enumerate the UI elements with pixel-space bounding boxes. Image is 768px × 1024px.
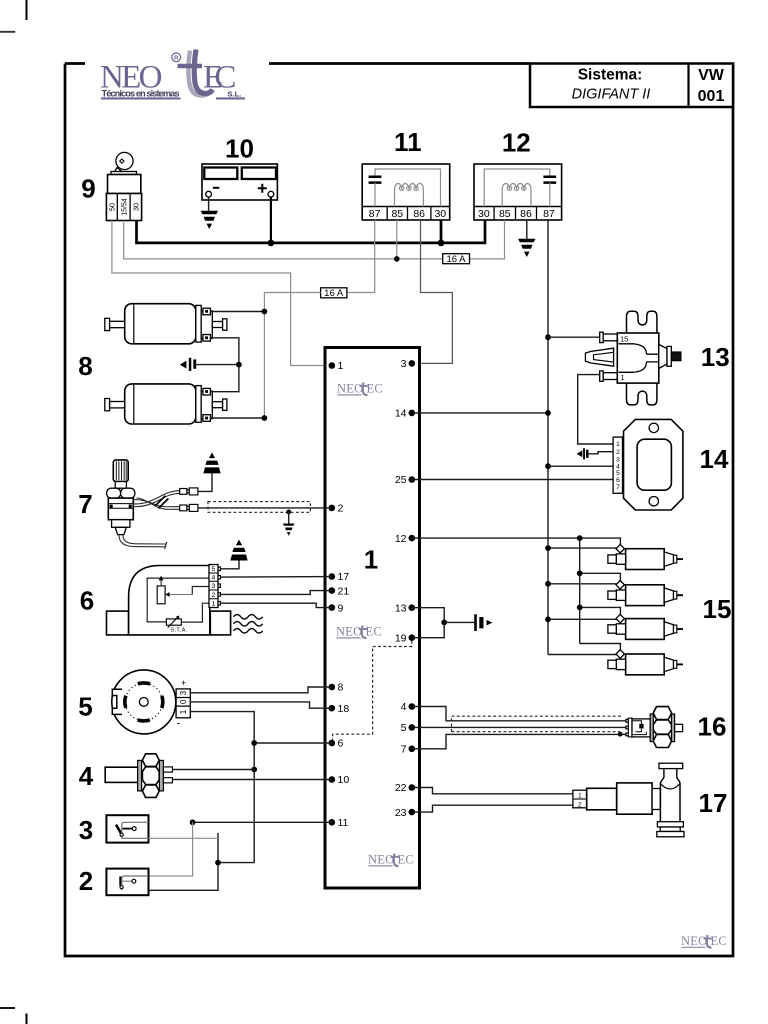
ignition switch 9 key circle xyxy=(116,152,133,169)
junction pump1 feed xyxy=(262,309,268,315)
crop mark bottom horizontal xyxy=(0,1007,15,1009)
wire distributor top to ECU 8 xyxy=(190,687,331,693)
svg-text:50: 50 xyxy=(107,203,116,211)
junction bracket mid xyxy=(441,620,447,626)
ignition switch 9 key beak xyxy=(113,168,122,175)
relay 11 terminal row line xyxy=(362,206,450,208)
wire switch3 lower to chain xyxy=(149,837,219,839)
ignition coil 13 left plug fork xyxy=(585,348,613,366)
temp sensor 17 block B xyxy=(617,783,652,814)
svg-text:25: 25 xyxy=(395,474,407,486)
distributor 5 connector strip xyxy=(176,689,190,718)
ground shield drain (small) xyxy=(283,524,295,536)
ECU internal dashed link pin19 to pin6 xyxy=(333,641,412,743)
svg-text:16: 16 xyxy=(698,711,727,741)
svg-text:5: 5 xyxy=(616,470,620,477)
shield dashed box around pin2 wire xyxy=(208,502,310,513)
svg-text:S.T.A.: S.T.A. xyxy=(170,628,187,634)
svg-text:12: 12 xyxy=(395,533,407,545)
svg-text:3: 3 xyxy=(79,815,93,845)
air flow meter 6 wiper xyxy=(165,592,170,597)
ground AFM (up) xyxy=(230,540,247,561)
ignition module 14 pin digits xyxy=(616,441,620,491)
svg-text:7: 7 xyxy=(616,484,620,491)
knock sensor 4 side bars xyxy=(138,760,142,791)
wire distributor bottom sensor ground chain xyxy=(149,712,255,891)
wire switch3 to switch2 branch xyxy=(149,822,193,876)
relay 11 capacitor lead xyxy=(374,183,376,207)
junction idle valve shield xyxy=(618,732,623,737)
oxygen sensor 7 collar left xyxy=(107,488,121,498)
svg-text:2: 2 xyxy=(338,503,344,515)
svg-text:7: 7 xyxy=(401,744,407,756)
node pin 21 xyxy=(329,587,336,594)
idle valve 16 hex stack xyxy=(653,707,671,720)
relay 12 inner rail xyxy=(484,169,550,207)
svg-text:1: 1 xyxy=(338,360,344,372)
air flow meter 6 pin strip xyxy=(209,565,218,608)
svg-text:86: 86 xyxy=(413,208,425,220)
throttle switch 3 entry bend xyxy=(122,822,149,838)
wire ECU pin4 to valve pin1 xyxy=(412,707,626,721)
air flow meter 6 right foot xyxy=(210,611,230,635)
NEOTEC logo tagline underline xyxy=(101,97,181,99)
oxygen sensor 7 body xyxy=(108,498,133,520)
ignition coil 13 pin15 flange xyxy=(600,332,604,342)
svg-text:8: 8 xyxy=(78,351,92,381)
distributor 5 dotted circle xyxy=(125,683,162,720)
fuel injector 15 no4 xyxy=(608,650,683,675)
crop mark bottom vertical xyxy=(26,1014,28,1024)
svg-text:6: 6 xyxy=(338,738,344,750)
node pin 5 xyxy=(409,724,416,731)
svg-text:0: 0 xyxy=(179,699,188,704)
junction relay11 85 on 15/54 xyxy=(394,256,400,262)
svg-text:16 A: 16 A xyxy=(324,288,344,299)
ignition coil 13 interior curves xyxy=(619,344,659,373)
air flow meter 6 pin digits xyxy=(212,566,216,607)
svg-text:VW: VW xyxy=(698,67,725,84)
temp sensor 17 connector cells xyxy=(573,790,587,808)
ECU control unit 1 box xyxy=(325,348,420,889)
injector supply taps xyxy=(548,548,616,654)
wire fuse2 to fuel pumps xyxy=(264,293,320,419)
wire oxygen signal to ECU pin2 xyxy=(198,507,332,509)
svg-text:87: 87 xyxy=(543,208,555,220)
junction supply to module pin4 xyxy=(545,463,551,469)
svg-text:1: 1 xyxy=(364,545,378,575)
NEOTEC logo S.L. underline xyxy=(216,97,245,99)
air flow meter 6 STA resistor box xyxy=(166,619,181,625)
fuel injector 15 no1 xyxy=(608,544,683,569)
svg-text:11: 11 xyxy=(338,817,349,829)
relay 11 coil loops xyxy=(400,186,419,190)
air flow meter 6 internal loop top xyxy=(147,578,209,622)
wire AFM pin4 to ECU 17 xyxy=(220,576,331,579)
svg-text:15: 15 xyxy=(703,594,732,624)
wire pump1 plus to feed xyxy=(210,311,264,313)
wire chain to ECU pin6 xyxy=(254,742,332,744)
battery 10 case xyxy=(202,164,277,200)
svg-text:1: 1 xyxy=(616,441,620,448)
svg-text:15/54: 15/54 xyxy=(121,198,128,216)
ignition module 14 octagon xyxy=(624,419,683,510)
ground oxygen heater (up) xyxy=(203,453,220,474)
air flow meter 6 pin nubs xyxy=(218,567,220,605)
relay 12 terminal row line xyxy=(474,206,562,208)
svg-text:5: 5 xyxy=(78,692,92,722)
svg-text:13: 13 xyxy=(395,602,407,614)
distributor 5 center xyxy=(139,698,148,707)
fuse 16A box 2 xyxy=(321,288,347,298)
wire relay11 85 down xyxy=(396,220,398,259)
air flow meter 6 STA out to pin1 xyxy=(181,603,209,622)
air flow meter 6 resistor xyxy=(157,586,165,604)
temp sensor 17 pipe top flange xyxy=(659,763,683,768)
ignition module 14 pin strip xyxy=(613,437,622,493)
relay 11 box xyxy=(362,164,450,220)
ignition switch 9 terminal row xyxy=(106,194,141,221)
air flow symbol waves xyxy=(234,615,263,633)
relay 12 coil xyxy=(502,183,531,206)
ignition switch 9 upper body xyxy=(108,175,141,194)
fuel injector 15 no3 xyxy=(608,614,683,639)
ignition switch 9 pedestal xyxy=(111,172,137,175)
junction chain to knock sensor xyxy=(251,767,257,773)
svg-text:+: + xyxy=(181,678,186,688)
svg-text:12: 12 xyxy=(502,128,531,158)
junction switch3 branch xyxy=(190,819,196,825)
svg-text:85: 85 xyxy=(391,208,403,220)
connector symbol pumps (left arrow) xyxy=(180,361,187,369)
wire knock sensor lower to ECU 10 xyxy=(172,779,331,781)
junctions supply rail xyxy=(545,545,551,551)
svg-text:R: R xyxy=(174,55,179,62)
throttle switch 2 lever xyxy=(119,877,122,886)
junction chain switches xyxy=(215,860,221,866)
wire battery minus to ground xyxy=(208,197,210,211)
idle valve 16 right tab xyxy=(675,724,683,731)
temp sensor 17 neck xyxy=(652,789,660,810)
idle valve 16 pin strip xyxy=(628,718,632,737)
node pin 23 xyxy=(409,809,416,816)
svg-text:17: 17 xyxy=(338,571,350,583)
wire ECU pin7 to valve pin3 xyxy=(412,734,626,748)
air flow meter 6 STA arrow xyxy=(168,617,178,628)
node pin 13 xyxy=(409,604,416,611)
node pin 7 xyxy=(409,746,416,753)
throttle switch 2 contact line xyxy=(123,880,132,882)
svg-text:001: 001 xyxy=(698,88,725,105)
svg-text:11: 11 xyxy=(394,127,422,157)
throttle switch 2 entry bend xyxy=(122,876,149,890)
svg-text:2: 2 xyxy=(212,592,216,599)
node pin 17 xyxy=(329,573,336,580)
ignition coil 13 body xyxy=(617,333,659,383)
svg-text:3: 3 xyxy=(179,690,188,695)
idle valve 16 connector block xyxy=(632,719,650,737)
watermark inside ECU bottom xyxy=(368,853,414,867)
temp sensor 17 pipe neck xyxy=(660,769,680,783)
svg-text:1: 1 xyxy=(212,601,216,608)
node pin 2 xyxy=(329,505,336,512)
svg-text:6: 6 xyxy=(616,477,620,484)
crop mark top horizontal xyxy=(0,31,15,33)
svg-text:9: 9 xyxy=(338,602,344,614)
wire pump1 minus to pump2 plus xyxy=(210,338,239,392)
svg-text:8: 8 xyxy=(338,682,344,694)
svg-text:17: 17 xyxy=(699,788,728,818)
battery 10 plus terminal xyxy=(268,191,274,197)
svg-text:85: 85 xyxy=(499,208,511,220)
distributor 5 segment arcs xyxy=(125,683,163,721)
ignition coil 13 bottom bracket xyxy=(627,383,657,405)
wire AFM pin1 to ECU 9 xyxy=(220,603,331,607)
junction supply pin14 xyxy=(545,410,551,416)
svg-text:18: 18 xyxy=(338,703,350,715)
node pin 14 xyxy=(409,410,416,417)
node pin 19 xyxy=(409,634,416,641)
NEOTEC logo registered mark xyxy=(172,53,181,62)
wire supply to coil pin 15 xyxy=(548,336,600,338)
wire battery plus to bus xyxy=(270,197,272,243)
relay 12 coil loops xyxy=(507,186,526,190)
svg-text:S.L.: S.L. xyxy=(228,89,242,98)
throttle switch 3 contact line xyxy=(123,828,133,830)
svg-text:2: 2 xyxy=(79,866,93,896)
ignition module 14 inner window xyxy=(637,439,671,490)
relay 12 capacitor xyxy=(543,177,556,183)
wire ECU pin12 to injector rail xyxy=(412,537,580,539)
wire relay12 86 to ground xyxy=(526,220,528,239)
crop mark top vertical xyxy=(26,0,28,20)
svg-text:Sistema:: Sistema: xyxy=(578,67,643,84)
node pin 11 xyxy=(329,819,336,826)
wire heater to ground xyxy=(198,474,212,492)
NEOTEC logo big t shadow xyxy=(188,51,211,96)
temp sensor 17 block A xyxy=(587,788,617,810)
junctions control rail xyxy=(577,535,583,541)
NEOTEC logo t crossbar xyxy=(178,64,203,69)
wire ignition 30 thick xyxy=(137,220,486,243)
ignition switch 9 terminal dividers xyxy=(117,194,130,221)
ignition coil 13 hv terminal xyxy=(671,352,681,361)
oxygen sensor 7 lower xyxy=(112,520,130,528)
ignition coil 13 pin1 nub xyxy=(603,373,617,380)
svg-text:DIGIFANT II: DIGIFANT II xyxy=(572,87,651,103)
distributor 5 outer circle xyxy=(112,670,176,734)
ignition switch 9 key hole xyxy=(120,159,124,163)
oxygen sensor 7 pigtail cable xyxy=(119,535,165,547)
svg-text:5: 5 xyxy=(401,722,407,734)
wire relay11 86 to ECU pin3 xyxy=(332,220,453,363)
ignition coil 13 top bracket xyxy=(627,311,657,333)
wire shield drain to ground xyxy=(288,512,290,524)
relay 11 inner rail xyxy=(375,169,441,207)
node pin 9 xyxy=(329,604,336,611)
oxygen sensor 7 tip xyxy=(115,527,126,534)
svg-text:10: 10 xyxy=(225,134,254,164)
ignition coil 13 pin15 nub xyxy=(603,334,617,341)
NEOTEC logo big t xyxy=(194,50,212,94)
relay 12 capacitor lead xyxy=(549,183,551,207)
junction pump2 feed xyxy=(262,415,268,421)
svg-text:21: 21 xyxy=(338,585,350,597)
wire module ground to pin2 xyxy=(589,452,614,454)
svg-text:1: 1 xyxy=(179,709,188,714)
wire ignition 50 xyxy=(112,221,332,366)
svg-text:1: 1 xyxy=(621,373,625,382)
wire ignition 15/54 xyxy=(124,221,443,259)
injector feed taps from control rail xyxy=(580,538,621,650)
svg-text:86: 86 xyxy=(520,208,532,220)
junction chain to ECU 6 xyxy=(251,740,257,746)
svg-text:7: 7 xyxy=(78,489,92,519)
svg-text:1: 1 xyxy=(578,792,582,799)
air flow meter 6 left foot xyxy=(107,611,129,635)
wire ECU pin23 xyxy=(412,805,573,812)
title block box Sistema xyxy=(530,64,733,108)
svg-text:3: 3 xyxy=(212,583,216,590)
node pin 4 xyxy=(409,703,416,710)
svg-text:4: 4 xyxy=(401,701,407,713)
wire switch3 to ECU 11 xyxy=(193,821,332,823)
wire coil pin1 to module 14 xyxy=(578,375,613,444)
oxygen sensor 7 cable A (lower to upper connector) xyxy=(133,491,179,504)
temp sensor 17 bottom flanges xyxy=(657,822,683,827)
temp sensor 17 pipe body xyxy=(660,783,680,822)
wire relay11 87 to fuse2 xyxy=(347,220,375,293)
wire ECU pin5 to valve pin2 xyxy=(412,726,626,728)
fuel injector 15 no2 xyxy=(608,581,683,606)
junction supply to coil 13 xyxy=(545,334,551,340)
svg-text:4: 4 xyxy=(79,761,94,791)
svg-text:23: 23 xyxy=(395,807,407,819)
junction pump ground link xyxy=(236,362,242,368)
wire relay12 87 supply feed xyxy=(547,220,549,655)
svg-text:2: 2 xyxy=(616,449,620,456)
battery 10 cell right xyxy=(242,168,276,180)
battery 10 minus sign xyxy=(213,187,220,189)
node pin 25 xyxy=(409,476,416,483)
svg-text:10: 10 xyxy=(338,774,350,786)
ECU pin dots right xyxy=(409,360,416,815)
svg-text:19: 19 xyxy=(395,632,407,644)
watermark bottom right xyxy=(681,934,727,948)
svg-text:5: 5 xyxy=(212,566,216,573)
distributor 5 notch xyxy=(112,689,122,714)
knock sensor 4 pins xyxy=(163,767,172,772)
node pin 22 xyxy=(409,784,416,791)
connector pair signal wire xyxy=(180,505,187,511)
junction battery plus on bus xyxy=(268,240,275,247)
watermark inside ECU top xyxy=(337,382,383,396)
battery 10 minus terminal xyxy=(206,191,212,197)
svg-text:9: 9 xyxy=(81,174,95,204)
svg-text:6: 6 xyxy=(80,585,94,615)
node pin 3 xyxy=(409,360,416,367)
knock sensor 4 lead xyxy=(105,767,139,782)
oxygen sensor 7 cross slash marks xyxy=(155,496,168,509)
throttle switch 3 box xyxy=(106,815,148,842)
ECU pin dots left xyxy=(329,362,336,825)
node pin 18 xyxy=(329,705,336,712)
svg-text:15: 15 xyxy=(620,335,628,344)
connector pair heater wire xyxy=(180,489,187,495)
svg-text:30: 30 xyxy=(478,208,490,220)
node pin 1 xyxy=(329,362,336,369)
svg-text:13: 13 xyxy=(701,342,730,372)
idle valve 16 pin nubs xyxy=(626,719,628,722)
fuel pump 8 lower xyxy=(105,384,227,424)
air flow meter 6 body xyxy=(129,566,210,635)
svg-text:3: 3 xyxy=(401,358,407,370)
wire supply to module pin4 xyxy=(548,465,613,467)
knock sensor 4 hex stack xyxy=(142,754,159,767)
junction shield drain xyxy=(286,510,291,515)
temp sensor 17 pipe meniscus xyxy=(660,784,680,790)
svg-text:Técnicos en sistemas: Técnicos en sistemas xyxy=(102,88,180,98)
ignition coil 13 pin1 flange xyxy=(600,371,604,381)
page frame border xyxy=(65,64,733,957)
connector symbol ECU ground (right arrow) xyxy=(474,614,477,631)
throttle switch 3 lever xyxy=(116,825,121,834)
battery 10 plus sign xyxy=(258,184,267,193)
injector control rail vertical xyxy=(579,538,581,643)
relay 11 capacitor xyxy=(369,177,382,183)
oxygen sensor 7 cylinder knurling xyxy=(116,461,126,480)
node pin 10 xyxy=(329,776,336,783)
oxygen sensor 7 collar right xyxy=(121,488,135,498)
fuel pump 8 upper xyxy=(105,304,227,344)
wire relay12 85 to fuse1 xyxy=(470,220,505,259)
node pin 6 xyxy=(329,740,336,747)
svg-text:-: - xyxy=(177,718,181,730)
ground battery xyxy=(201,211,218,229)
svg-text:16 A: 16 A xyxy=(446,254,466,265)
ECU pin labels right xyxy=(395,358,407,819)
ECU pin labels left xyxy=(338,360,350,829)
relay 12 terminal dividers xyxy=(494,207,536,221)
title block divider xyxy=(687,64,689,108)
wire AFM pin2 to ECU 21 xyxy=(220,591,331,595)
wire relay11 30 thick xyxy=(440,220,443,243)
svg-text:87: 87 xyxy=(369,208,381,220)
connector symbol module ground xyxy=(577,450,583,457)
watermark inside ECU middle xyxy=(336,625,382,639)
wire knock sensor upper xyxy=(172,769,254,771)
wire ECU pin22 xyxy=(412,788,573,794)
svg-text:22: 22 xyxy=(395,782,407,794)
junction relay11 30 on bus xyxy=(438,240,445,247)
wire AFM pin5 to ground xyxy=(220,561,239,569)
wire ECU pin13/19 bracket xyxy=(412,608,444,638)
relay 12 box xyxy=(474,164,562,220)
oxygen sensor 7 top cylinder xyxy=(113,460,128,482)
oxygen sensor 7 neck xyxy=(115,482,126,489)
svg-text:14: 14 xyxy=(395,408,407,420)
idle valve 16 side bars xyxy=(650,714,653,742)
shield dashed box idle valve wires xyxy=(452,716,622,732)
battery 10 cell left xyxy=(204,168,237,180)
wire ECU pin14 to supply xyxy=(412,412,548,414)
svg-text:30: 30 xyxy=(131,203,140,211)
node pin 12 xyxy=(409,535,416,542)
wire distributor mid to ECU 18 xyxy=(190,702,331,708)
idle valve 16 internal circuit xyxy=(632,721,646,735)
ignition coil 13 tower xyxy=(659,345,667,369)
air flow meter 6 resistor top lead with arrow xyxy=(160,580,162,586)
